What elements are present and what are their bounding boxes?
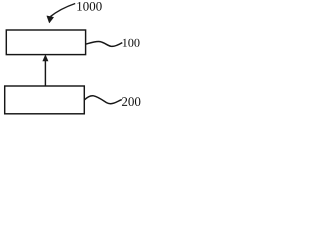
wire: arrow from block 200 to block 100 [44, 60, 46, 86]
arrowhead of wire [42, 54, 48, 61]
curved leader arrow for label 1000 [50, 4, 75, 17]
label 200 [122, 97, 140, 106]
block 200 (bottom rectangle) [5, 86, 85, 114]
squiggle leader to label 200 [84, 96, 121, 104]
label 100 [123, 39, 140, 47]
block 100 (top rectangle) [6, 30, 85, 55]
arrowhead of curved leader [47, 16, 54, 23]
squiggle leader to label 100 [86, 41, 122, 46]
label 1000 [77, 2, 101, 11]
